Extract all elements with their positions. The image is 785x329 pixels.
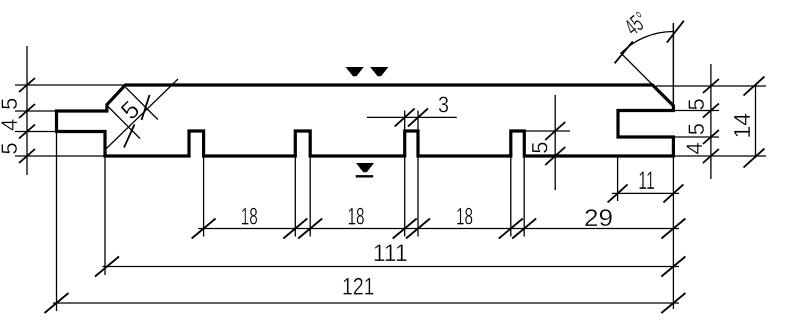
18/18/18/29 ticks	[192, 219, 686, 239]
svg-text:5: 5	[684, 98, 709, 110]
svg-text:4: 4	[0, 119, 22, 131]
svg-text:14: 14	[729, 113, 755, 139]
left dimension column 5/4/5	[15, 46, 125, 175]
121 dimension	[53, 23, 679, 311]
groove depth 5 dimension	[525, 95, 571, 190]
14 overall thickness dimension	[755, 84, 757, 158]
extension lines below bottom grooves	[204, 157, 525, 237]
svg-text:5: 5	[0, 142, 22, 154]
chamfer 5 dimension (left tongue chamfer)	[104, 79, 178, 151]
groove width 3 dimension	[367, 111, 457, 135]
svg-text:11: 11	[638, 167, 655, 195]
right dimension column 5/5/4	[656, 64, 766, 179]
right column ticks	[703, 79, 719, 163]
groove width 3 ticks	[395, 108, 428, 126]
svg-text:5: 5	[528, 142, 553, 154]
11 dimension ticks	[608, 184, 684, 202]
14 dimension ticks	[744, 77, 765, 168]
45 degree dimension arc	[621, 23, 674, 106]
svg-text:5: 5	[684, 123, 709, 135]
svg-text:5: 5	[0, 98, 22, 110]
svg-text:4: 4	[682, 142, 707, 154]
svg-text:18: 18	[241, 203, 258, 230]
svg-text:111: 111	[373, 240, 408, 267]
board profile outline	[57, 85, 674, 156]
svg-text:121: 121	[342, 274, 375, 301]
svg-text:18: 18	[456, 203, 473, 230]
45 degree arc ticks	[615, 21, 684, 64]
111 ticks	[95, 257, 685, 277]
surface finish mark triangle 2 (top)	[370, 67, 388, 76]
svg-text:29: 29	[584, 205, 613, 232]
surface finish mark triangle with bar (bottom)	[356, 163, 374, 176]
svg-text:18: 18	[348, 203, 365, 230]
left column tick marks	[19, 78, 35, 163]
11 groove depth dimension (right)	[612, 157, 679, 201]
chamfer 5 ticks	[124, 95, 150, 148]
surface finish mark triangle 1 (top)	[346, 67, 364, 76]
111 dimension	[103, 157, 680, 275]
svg-text:3: 3	[438, 92, 449, 118]
groove depth 5 ticks	[545, 122, 565, 165]
121 ticks	[45, 293, 686, 313]
18/18/18/29 dimension line	[198, 228, 679, 230]
